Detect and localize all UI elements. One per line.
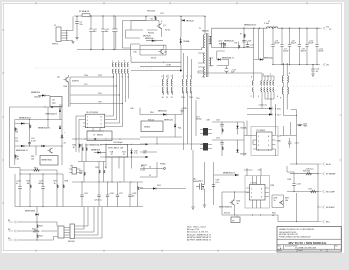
- winding column 4A: [162, 79, 163, 93]
- inductor L1: [264, 21, 278, 28]
- wire left feed: [76, 116, 83, 153]
- svg-text:MMBD914LT1: MMBD914LT1: [38, 128, 51, 130]
- wire: [222, 192, 250, 215]
- connector J3: [70, 224, 75, 239]
- svg-text:22u: 22u: [80, 24, 83, 26]
- shunt regulator U8: [245, 176, 270, 209]
- svg-text:MMBD914: MMBD914: [91, 149, 101, 151]
- svg-text:E8 COMP: E8 COMP: [326, 192, 335, 194]
- svg-text:MMBD914LT1: MMBD914LT1: [223, 173, 236, 175]
- capacitor C26: [107, 182, 109, 195]
- driver block U6: [141, 121, 163, 132]
- diode D16: [269, 107, 272, 109]
- diode D15: [236, 150, 238, 153]
- diode D11: [130, 151, 132, 154]
- wire: [247, 104, 276, 121]
- svg-text:R33 2k: R33 2k: [148, 33, 155, 35]
- capacitor C27: [117, 182, 119, 195]
- wire: [70, 182, 143, 207]
- diode D25: [218, 58, 221, 60]
- svg-text:E9 SGND: E9 SGND: [326, 207, 335, 209]
- svg-text:0.1u: 0.1u: [216, 182, 220, 184]
- connector J2: [56, 222, 58, 226]
- start-up / gate drive cluster: [123, 11, 195, 72]
- test point box: [231, 217, 240, 223]
- svg-text:All diodes MMBD914LT1: All diodes MMBD914LT1: [187, 233, 212, 236]
- resistor R24: [36, 233, 38, 234]
- PWM controller U1: [78, 142, 149, 182]
- diode D6: [21, 145, 24, 147]
- capacitor C4: [112, 15, 117, 50]
- wire output return rail: [273, 64, 320, 66]
- resistor R6b: [30, 124, 31, 129]
- winding column 4B: [167, 79, 168, 93]
- wire: [140, 108, 182, 115]
- wire J1 pin bus: [67, 16, 74, 40]
- transistor Q3 (FET): [222, 42, 227, 48]
- transistor box Q9: [40, 156, 58, 166]
- terminal E8: [318, 190, 325, 193]
- svg-text:SYNC RECT. CIR: SYNC RECT. CIR: [108, 148, 124, 150]
- feedback divider right: [272, 163, 336, 224]
- svg-text:All resistors 0.1W, 5%: All resistors 0.1W, 5%: [187, 231, 208, 234]
- diode D23: [146, 143, 149, 145]
- wire: [198, 53, 205, 63]
- zone ticks bottom: [36, 250, 218, 252]
- capacitor C6: [272, 28, 274, 64]
- pin stubs sides: [246, 188, 269, 197]
- connector J1: [52, 25, 68, 46]
- svg-text:0.1u: 0.1u: [134, 153, 138, 155]
- svg-text:PGND: PGND: [160, 164, 166, 166]
- svg-text:Note: Unless noted: Note: Unless noted: [187, 226, 206, 229]
- transistor Q7: [230, 200, 235, 205]
- capacitor C32: [293, 172, 295, 184]
- diode D12: [163, 113, 166, 115]
- wire feeds: [244, 121, 276, 157]
- pin drops bottom: [253, 200, 261, 208]
- title block: [277, 227, 341, 253]
- diode D18: [36, 213, 39, 215]
- aux rail wires to T1: [198, 66, 237, 74]
- svg-text:All PNPs MMBT3906LT1: All PNPs MMBT3906LT1: [187, 239, 212, 242]
- box aux: [50, 97, 62, 107]
- svg-text:2.7uH: 2.7uH: [264, 23, 270, 25]
- svg-text:100uF: 100uF: [291, 43, 297, 45]
- T1 aux windings group A: [162, 75, 174, 100]
- diode D1: [152, 40, 155, 42]
- svg-text:MUR120: MUR120: [186, 20, 195, 22]
- capacitor C21: [288, 142, 291, 144]
- resistor R32: [243, 33, 245, 35]
- svg-text:R34 100k: R34 100k: [147, 11, 156, 13]
- wire buses: [227, 73, 275, 115]
- resistor R38: [104, 170, 105, 174]
- svg-text:+C35 10u: +C35 10u: [305, 168, 313, 170]
- gate drive bundle: [112, 61, 130, 115]
- capacitor C25: [98, 182, 100, 195]
- svg-text:MOLEX: MOLEX: [68, 241, 75, 243]
- pin risers top: [253, 176, 261, 185]
- svg-text:F1 MDA 7A: F1 MDA 7A: [79, 10, 89, 13]
- capacitor C19: [220, 142, 223, 144]
- svg-text:1M: 1M: [15, 131, 18, 133]
- svg-text:R25 10k: R25 10k: [303, 171, 311, 173]
- terminal E3: [9, 239, 17, 242]
- transformer T1 core: [206, 33, 208, 77]
- zone ticks left: [2, 30, 4, 203]
- wire: [287, 166, 294, 172]
- svg-text:B240A: B240A: [184, 40, 190, 43]
- svg-text:R41 1k: R41 1k: [224, 213, 231, 215]
- svg-text:MBR0540LT1: MBR0540LT1: [222, 57, 235, 59]
- MOSFET Q6: [200, 183, 205, 190]
- output capacitor bank: [271, 28, 324, 66]
- wire: [198, 67, 205, 77]
- svg-text:100uF: 100uF: [301, 51, 307, 53]
- terminal E10: [318, 220, 325, 223]
- svg-text:E7 SENSE: E7 SENSE: [326, 174, 336, 176]
- winding column 5C: [190, 79, 191, 93]
- transformer T1 primary winding lower: [204, 67, 205, 77]
- resistor R13: [222, 146, 223, 151]
- resistor R16: [29, 174, 31, 184]
- diode D9: [42, 94, 45, 96]
- svg-text:C44 100pF: C44 100pF: [113, 142, 123, 144]
- resistor R1: [155, 16, 156, 20]
- svg-text:FZT853: FZT853: [219, 44, 227, 46]
- zone ticks top: [36, 2, 307, 4]
- svg-text:68u: 68u: [105, 31, 108, 33]
- wire: [209, 58, 213, 66]
- winding column 6D: [267, 81, 268, 92]
- svg-text:Si9804: Si9804: [144, 127, 151, 129]
- svg-text:U5 LTC1693-1: U5 LTC1693-1: [86, 112, 99, 114]
- capacitor C13: [311, 64, 320, 74]
- wire bundle verticals: [114, 75, 129, 115]
- diode D4: [59, 109, 61, 112]
- resistor R20: [137, 182, 139, 186]
- junction dots: [272, 28, 273, 29]
- winding column 2C: [118, 63, 119, 74]
- svg-text:MBRS140: MBRS140: [164, 120, 174, 122]
- test point circle: [51, 106, 53, 108]
- zone ticks right: [340, 115, 342, 160]
- transformer T1 secondary winding lower: [209, 58, 210, 66]
- resistor R37: [99, 170, 100, 174]
- winding column 6A: [252, 81, 253, 92]
- svg-text:MBRB2545: MBRB2545: [224, 41, 235, 43]
- svg-text:10n: 10n: [143, 153, 146, 155]
- winding column 4C: [171, 79, 172, 93]
- capacitor C9: [299, 28, 301, 64]
- winding column 5A: [182, 79, 183, 93]
- svg-text:100uF: 100uF: [308, 43, 314, 45]
- wire aux links: [217, 51, 260, 66]
- wire Vout rail: [278, 27, 321, 29]
- svg-text:100uF: 100uF: [318, 51, 324, 53]
- capacitor C2: [89, 15, 97, 50]
- resistor R17: [56, 174, 58, 184]
- capacitor C10: [306, 28, 308, 64]
- capacitor C14: [226, 72, 228, 73]
- T1 secondary windings vertical pair: [282, 63, 288, 98]
- diode D7: [42, 145, 45, 147]
- T1 aux windings group B: [181, 53, 193, 99]
- resistor R14 (sense): [298, 125, 303, 126]
- transistor Q2: [159, 49, 164, 54]
- svg-text:B240A: B240A: [241, 153, 247, 156]
- opto feedback section: [212, 162, 318, 223]
- resistor R23: [36, 222, 38, 224]
- capacitor C3: [101, 15, 109, 50]
- winding column 2D: [121, 63, 122, 74]
- winding column 2F: [127, 63, 128, 74]
- svg-text:MBR0540: MBR0540: [264, 57, 273, 59]
- svg-text:T3C: T3C: [196, 98, 200, 100]
- svg-text:E6 S+: E6 S+: [326, 164, 332, 166]
- svg-text:COM: COM: [166, 65, 171, 67]
- svg-text:VCC: VCC: [277, 136, 282, 138]
- test point PG: [164, 168, 166, 170]
- wire secondary stubs: [209, 37, 211, 45]
- svg-text:B240A: B240A: [241, 127, 247, 130]
- resistor R22: [33, 230, 40, 232]
- svg-text:+C30 2.2u: +C30 2.2u: [244, 170, 253, 172]
- diode D13: [174, 124, 176, 127]
- transformer T1 primary winding upper: [204, 35, 205, 48]
- aux riser wires: [254, 28, 264, 78]
- wire rail: [100, 144, 147, 157]
- svg-text:PA0810: PA0810: [202, 29, 210, 32]
- svg-text:(G)RTN: (G)RTN: [72, 81, 79, 83]
- capacitor C18: [220, 124, 223, 126]
- wire riser to logic: [75, 207, 103, 238]
- snubber network row 1: [212, 120, 247, 157]
- pin stubs: [253, 136, 276, 150]
- ground (output): [311, 74, 314, 76]
- wire input return rail: [77, 49, 202, 51]
- transistor Q11: [279, 201, 283, 205]
- transistor Q8: [48, 148, 53, 153]
- resistor R8: [86, 147, 87, 152]
- wire T1 primary leads: [202, 16, 205, 49]
- bias box rails: [15, 104, 62, 165]
- wire gate return: [131, 70, 181, 72]
- winding column 6C: [264, 81, 265, 92]
- soft-start network lower-left: [9, 107, 70, 222]
- capacitor C35: [242, 40, 245, 42]
- diode D22: [180, 69, 182, 71]
- wire: [180, 16, 182, 70]
- ground (Q6): [203, 205, 206, 207]
- diode D20: [235, 174, 238, 176]
- svg-text:Rev: Rev: [335, 246, 338, 248]
- capacitor C7: [281, 28, 283, 64]
- transistor Q1: [157, 24, 162, 29]
- wire: [212, 122, 244, 156]
- svg-text:100uF: 100uF: [283, 51, 289, 53]
- controller decoupling rail: [70, 182, 144, 207]
- capacitor C22: [19, 174, 21, 187]
- wire COM rails: [131, 62, 181, 66]
- capacitor C24: [81, 182, 83, 195]
- svg-text:MMBT3904: MMBT3904: [42, 160, 53, 162]
- capacitor C8: [289, 28, 291, 64]
- svg-text:LINEAR TECHNOLOGY CORPORATION: LINEAR TECHNOLOGY CORPORATION: [279, 228, 315, 231]
- current sense / secondary drive region: [140, 108, 212, 152]
- ground (J1 return): [72, 42, 75, 44]
- winding column 6E: [270, 81, 271, 92]
- svg-text:100uF: 100uF: [274, 43, 280, 45]
- sync output branch: [140, 150, 206, 209]
- aux rectifier diodes: [247, 104, 281, 121]
- wire loop 1: [131, 16, 159, 30]
- winding column 6F: [273, 81, 274, 92]
- resistor R27: [310, 190, 317, 192]
- svg-text:MBR0540LT1: MBR0540LT1: [46, 114, 59, 116]
- wire: [70, 77, 123, 107]
- svg-text:GND: GND: [277, 141, 282, 143]
- wire side rails: [78, 162, 147, 171]
- svg-text:BH500: BH500: [97, 135, 104, 137]
- svg-text:MMBT3906: MMBT3906: [25, 211, 36, 213]
- diode D2: [180, 40, 182, 43]
- svg-text:MBR0540LT1: MBR0540LT1: [16, 150, 29, 152]
- svg-text:All NPNs MMBT3904LT1: All NPNs MMBT3904LT1: [187, 236, 212, 239]
- run/shutdown jumper: [69, 162, 85, 183]
- svg-text:MBR0540: MBR0540: [158, 111, 167, 113]
- wire: [17, 222, 58, 240]
- synchronous rectifier block: [209, 28, 274, 79]
- winding column 5B: [186, 79, 187, 93]
- terminal VOUT+: [320, 27, 325, 30]
- snubber RC across rails: [240, 34, 252, 43]
- terminal E7: [318, 172, 325, 175]
- wire left drops: [123, 21, 147, 63]
- zener Z1: [61, 135, 63, 138]
- transformer T1 secondary winding upper: [209, 36, 210, 44]
- svg-text:48V TO 5V / 50W MODULE: 48V TO 5V / 50W MODULE: [288, 241, 326, 245]
- svg-text:PWR 5: PWR 5: [52, 44, 59, 46]
- ground (bundle2): [191, 207, 194, 209]
- gate transformer T2: [87, 131, 112, 141]
- svg-text:0.1uF: 0.1uF: [31, 140, 37, 142]
- wire pin risers: [114, 106, 123, 127]
- wire: [214, 162, 262, 205]
- svg-text:68u: 68u: [93, 31, 96, 33]
- terminal E2: [9, 230, 17, 233]
- resistor R4: [239, 45, 240, 49]
- svg-text:MBR0540: MBR0540: [145, 38, 154, 40]
- transistor Q4: [64, 77, 69, 82]
- sense resistor network right: [280, 98, 308, 164]
- winding column 2A: [112, 63, 113, 74]
- svg-text:C 1uF: C 1uF: [246, 41, 252, 43]
- notes text block: [187, 226, 212, 242]
- svg-text:1u: 1u: [16, 183, 18, 185]
- capacitor C5: [246, 45, 249, 47]
- terminal VOUT-: [323, 63, 325, 66]
- wire input rail A (+48V): [74, 15, 205, 17]
- wire: [140, 162, 157, 177]
- pin stubs: [83, 116, 86, 127]
- capacitor C1: [75, 16, 83, 38]
- svg-text:All caps 25V: All caps 25V: [187, 228, 200, 231]
- housekeeping supply (left mid): [9, 75, 68, 165]
- wire sense bus: [287, 164, 318, 222]
- capacitor C23: [42, 174, 44, 187]
- terminal E1: [9, 221, 17, 224]
- diode D5: [21, 122, 24, 124]
- terminal E9: [318, 206, 325, 209]
- resistor R15: [33, 169, 40, 171]
- svg-text:DC299A LT1339CSW: DC299A LT1339CSW: [295, 247, 317, 250]
- svg-text:LTC1693-1: LTC1693-1: [256, 130, 266, 132]
- fuse F1: [79, 10, 90, 17]
- resistor R12: [222, 128, 223, 133]
- svg-text:1N4148: 1N4148: [34, 97, 42, 99]
- svg-text:MMBD914LT1: MMBD914LT1: [19, 118, 32, 120]
- wire: [140, 137, 203, 152]
- wire: [161, 21, 163, 37]
- resistor R19: [83, 162, 85, 172]
- wire below IC: [72, 128, 140, 139]
- svg-text:R35 10: R35 10: [148, 120, 155, 122]
- isolation dashed line right: [150, 85, 332, 87]
- wire: [280, 98, 297, 164]
- wire: [9, 107, 70, 207]
- wire sync rect box: [212, 28, 268, 47]
- diode D17: [269, 113, 272, 115]
- winding column 2E: [124, 63, 125, 74]
- diode D19: [153, 187, 156, 189]
- divider fragments: [272, 195, 284, 208]
- svg-text:MBRB2545CT: MBRB2545CT: [244, 25, 257, 27]
- T1 winding sense leads: [70, 74, 123, 107]
- isolation dashed line left: [35, 67, 152, 69]
- T1 pin stubs: [209, 37, 212, 44]
- svg-text:T1C: T1C: [84, 84, 88, 86]
- gate driver U7: [244, 121, 278, 157]
- svg-text:10u: 10u: [132, 195, 135, 197]
- wire top rail: [9, 106, 62, 108]
- resistor R7: [82, 147, 83, 152]
- capacitor C11: [316, 28, 318, 64]
- snubber network row 2: [212, 138, 247, 157]
- winding column 6B: [261, 81, 262, 92]
- svg-text:MMBT3906LT1: MMBT3906LT1: [219, 207, 233, 209]
- terminal E6: [318, 163, 325, 166]
- svg-text:C25 0.1u: C25 0.1u: [94, 200, 102, 202]
- misc density labels: [64, 25, 292, 188]
- input control terminals: [8, 207, 102, 243]
- resistor R18: [62, 174, 64, 184]
- current sense bar CS1: [203, 128, 208, 136]
- T1 aux windings group C: [227, 73, 280, 115]
- wire opto ground rail: [222, 215, 318, 222]
- wire bottom pins of U1: [106, 157, 132, 182]
- diode D26: [260, 58, 263, 60]
- wire: [198, 71, 217, 73]
- diode D24: [146, 156, 149, 158]
- wire: [212, 140, 244, 150]
- diode D10: [98, 151, 101, 153]
- diode D14: [236, 126, 238, 129]
- aux bundle 2 verticals: [184, 95, 197, 150]
- transformer T1 primary winding middle: [204, 53, 205, 63]
- resistor R25: [306, 173, 313, 175]
